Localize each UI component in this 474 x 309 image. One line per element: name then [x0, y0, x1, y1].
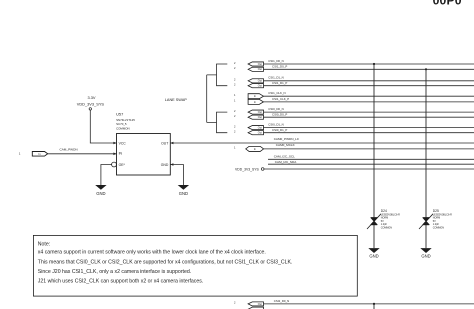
- svg-text:2: 2: [234, 78, 236, 82]
- svg-text:J21 which uses CSI2_CLK can su: J21 which uses CSI2_CLK can support both…: [38, 279, 204, 285]
- svg-text:Out: Out: [258, 303, 262, 306]
- svg-text:CSI1_CLK_N: CSI1_CLK_N: [268, 91, 285, 95]
- svg-text:1: 1: [234, 146, 236, 150]
- svg-text:1: 1: [234, 99, 236, 103]
- svg-text:2: 2: [234, 124, 236, 128]
- svg-text:CSI1_D0_P: CSI1_D0_P: [272, 65, 287, 69]
- svg-text:Note:: Note:: [38, 242, 50, 248]
- svg-text:00P0: 00P0: [433, 0, 462, 8]
- svg-text:CSI0_D1_N: CSI0_D1_N: [268, 123, 283, 127]
- svg-text:x4 camera support in current s: x4 camera support in current software on…: [38, 250, 266, 256]
- svg-text:2: 2: [234, 83, 236, 87]
- svg-text:CSI1_D1_P: CSI1_D1_P: [272, 81, 287, 85]
- svg-text:In: In: [38, 152, 41, 156]
- svg-text:Out: Out: [258, 68, 262, 71]
- svg-text:CAM0_MCLK: CAM0_MCLK: [276, 143, 296, 147]
- svg-text:CSI0_D1_P: CSI0_D1_P: [272, 128, 287, 132]
- svg-text:SC70_5: SC70_5: [116, 122, 127, 126]
- svg-text:2: 2: [234, 301, 236, 305]
- svg-text:Out: Out: [258, 116, 262, 119]
- svg-text:CAM0_PWDN_L0: CAM0_PWDN_L0: [274, 137, 299, 141]
- svg-text:COMMON: COMMON: [116, 126, 130, 130]
- svg-text:COMMON: COMMON: [381, 227, 392, 230]
- svg-text:2: 2: [234, 61, 236, 65]
- svg-text:CSI1_CLK_P: CSI1_CLK_P: [272, 97, 289, 101]
- svg-text:GND: GND: [369, 253, 378, 258]
- svg-text:2: 2: [234, 66, 236, 70]
- svg-text:In: In: [254, 95, 257, 98]
- svg-text:Out: Out: [258, 132, 262, 135]
- svg-text:2: 2: [234, 114, 236, 118]
- svg-text:OE*: OE*: [119, 163, 126, 167]
- svg-text:CSI1_D0_N: CSI1_D0_N: [268, 59, 283, 63]
- svg-text:GND: GND: [161, 163, 169, 167]
- svg-text:IN: IN: [119, 151, 123, 155]
- svg-text:Since J20 has CSI1_CLK, only a: Since J20 has CSI1_CLK, only a x2 camera…: [38, 269, 191, 275]
- svg-text:Out: Out: [258, 85, 262, 88]
- svg-text:VDD_3V3_SYS: VDD_3V3_SYS: [235, 167, 259, 171]
- svg-text:VCC: VCC: [119, 141, 127, 145]
- svg-text:VDD_3V3_SYS: VDD_3V3_SYS: [77, 102, 105, 107]
- svg-text:CSI0_D0_P: CSI0_D0_P: [272, 113, 287, 117]
- svg-text:COMMON: COMMON: [433, 227, 444, 230]
- svg-text:CSI1_D1_N: CSI1_D1_N: [268, 76, 283, 80]
- svg-text:LANE SWAP: LANE SWAP: [165, 98, 187, 102]
- svg-text:1: 1: [234, 93, 236, 97]
- svg-text:Out: Out: [258, 127, 262, 130]
- svg-text:GND: GND: [421, 253, 430, 258]
- svg-text:CAM_I2C_SDA: CAM_I2C_SDA: [275, 160, 297, 164]
- svg-text:2: 2: [234, 130, 236, 134]
- svg-text:CAM_I2C_SCL: CAM_I2C_SCL: [274, 154, 295, 158]
- svg-text:3.3V: 3.3V: [87, 95, 95, 100]
- svg-text:CSI0_D0_N: CSI0_D0_N: [268, 107, 283, 111]
- svg-text:CAM_PWDN: CAM_PWDN: [60, 148, 78, 152]
- svg-text:GND: GND: [179, 191, 188, 196]
- svg-text:U57: U57: [116, 112, 123, 117]
- svg-text:OUT: OUT: [161, 141, 168, 145]
- svg-text:CSI2_D0_N: CSI2_D0_N: [274, 299, 289, 303]
- svg-text:In: In: [254, 101, 257, 104]
- svg-text:1: 1: [19, 152, 21, 156]
- svg-text:2: 2: [234, 109, 236, 113]
- svg-text:Out: Out: [258, 111, 262, 114]
- svg-text:GND: GND: [96, 191, 105, 196]
- svg-text:This means that CSI0_CLK or CS: This means that CSI0_CLK or CSI2_CLK are…: [38, 259, 293, 265]
- svg-text:In: In: [254, 147, 257, 151]
- svg-text:Out: Out: [258, 80, 262, 83]
- svg-text:Out: Out: [258, 63, 262, 66]
